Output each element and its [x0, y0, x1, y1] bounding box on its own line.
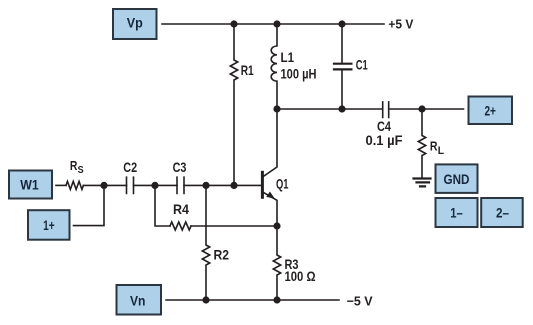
- svg-text:100 µH: 100 µH: [281, 66, 317, 82]
- svg-text:Vn: Vn: [130, 293, 146, 309]
- wire C2 to C3: [134, 184, 178, 186]
- transistor Q1 emitter: [263, 192, 277, 226]
- svg-text:1–: 1–: [450, 205, 463, 221]
- transistor Q1 emitter arrow: [266, 192, 275, 199]
- node base R1: [230, 182, 237, 189]
- resistor R2: [202, 185, 209, 300]
- node top L1: [273, 20, 280, 27]
- capacitor C4: [383, 102, 389, 118]
- node C4 RL: [418, 105, 425, 112]
- resistor R1: [230, 24, 237, 185]
- transistor Q1 collector: [263, 109, 277, 177]
- node C2 C3: [151, 182, 158, 189]
- node Rs C2: [100, 182, 107, 189]
- wire top +5V rail: [162, 23, 384, 25]
- capacitor C1: [341, 24, 343, 109]
- svg-text:1+: 1+: [43, 217, 55, 233]
- svg-text:2+: 2+: [484, 103, 496, 119]
- box 1+: [28, 210, 70, 240]
- box W1: [9, 171, 52, 199]
- capacitor C3: [177, 177, 184, 193]
- wire Vn rail: [166, 299, 339, 301]
- wire 1+ to node: [74, 185, 105, 225]
- svg-text:0.1 µF: 0.1 µF: [366, 132, 403, 148]
- svg-text:Q1: Q1: [276, 175, 289, 191]
- wire W1 to Rs: [56, 184, 66, 186]
- svg-text:L1: L1: [281, 49, 295, 65]
- wire Rs to C2: [83, 184, 126, 186]
- box Vp: [113, 9, 157, 39]
- svg-text:R4: R4: [173, 201, 189, 217]
- ground: [414, 179, 431, 187]
- node C1 bottom: [338, 105, 345, 112]
- svg-text:−5 V: −5 V: [347, 294, 373, 309]
- svg-text:W1: W1: [20, 177, 39, 193]
- box 2-: [481, 198, 523, 227]
- node base R2: [202, 182, 209, 189]
- wire C3 to Q1 base: [184, 184, 262, 186]
- box GND: [436, 164, 478, 193]
- svg-text:S: S: [78, 165, 84, 176]
- svg-text:GND: GND: [444, 171, 470, 187]
- node top R1: [230, 20, 237, 27]
- svg-text:100 Ω: 100 Ω: [285, 268, 316, 284]
- svg-text:C1: C1: [356, 57, 368, 73]
- node emitter R4: [273, 222, 280, 229]
- svg-text:Vp: Vp: [127, 14, 143, 30]
- svg-text:R: R: [430, 138, 438, 153]
- svg-text:L: L: [438, 145, 445, 157]
- resistor R3: [273, 226, 280, 300]
- capacitor C2: [127, 177, 134, 193]
- svg-text:C3: C3: [173, 159, 187, 175]
- node collector rail: [273, 105, 280, 112]
- wire R4 to emitter node: [191, 225, 277, 227]
- wire C4 to 2+: [389, 108, 464, 110]
- svg-text:R2: R2: [214, 247, 230, 263]
- node R2 Vn: [202, 296, 209, 303]
- transistor Q1 base bar: [261, 171, 264, 199]
- box 1-: [436, 198, 478, 227]
- wire node to R4: [155, 185, 170, 226]
- resistor R4: [170, 222, 191, 230]
- resistor RL: [418, 109, 425, 177]
- wire collector rail: [277, 108, 383, 110]
- resistor RS: [66, 181, 83, 189]
- node top C1: [338, 20, 345, 27]
- box Vn: [117, 285, 162, 315]
- svg-text:C2: C2: [123, 159, 137, 175]
- svg-text:2–: 2–: [496, 205, 509, 221]
- box 2+: [469, 97, 513, 125]
- svg-text:+5 V: +5 V: [388, 16, 413, 31]
- inductor L1: [271, 24, 277, 109]
- node R3 Vn: [273, 296, 280, 303]
- svg-text:R1: R1: [241, 62, 254, 78]
